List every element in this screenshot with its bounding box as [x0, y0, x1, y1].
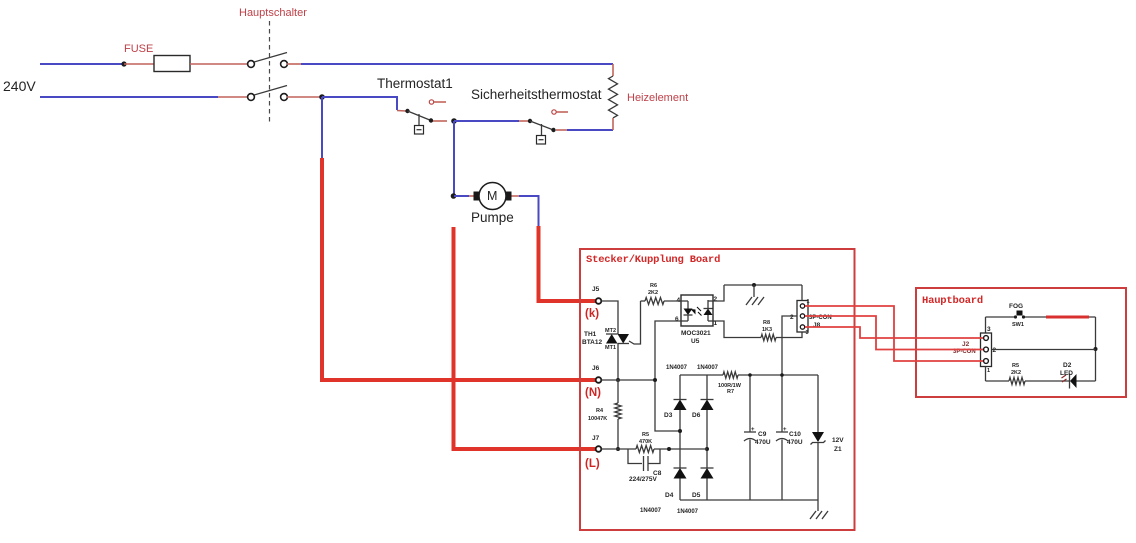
label J8 — [813, 322, 821, 329]
pin 6 label — [675, 316, 679, 323]
label R4 — [596, 408, 604, 414]
wire D3 to D4 — [679, 410, 681, 468]
label 100R/1W — [718, 383, 742, 389]
wire FOG left — [986, 316, 1015, 318]
ground bottom stub — [817, 500, 819, 511]
wire red J8 pin1 to J2 pin1 — [805, 306, 983, 361]
svg-text:D3: D3 — [664, 412, 673, 419]
wire thick red L vertical — [452, 227, 456, 449]
label J2 — [962, 341, 970, 348]
label D3 — [664, 412, 673, 419]
wire line2 red to switch — [218, 96, 248, 98]
svg-text:470U: 470U — [787, 439, 803, 446]
wire line1 red fuse to switch — [190, 63, 248, 65]
svg-text:Sicherheitsthermostat: Sicherheitsthermostat — [471, 87, 602, 102]
svg-text:D6: D6 — [692, 412, 701, 419]
wire D4 to bottom rail — [679, 479, 681, 501]
wire blue pump feed — [453, 121, 455, 196]
resistor R4 — [615, 403, 621, 419]
svg-text:J2: J2 — [962, 341, 970, 348]
label D4 — [665, 492, 674, 499]
wire 240V line2 blue segment — [40, 96, 218, 98]
pin 3 label J8 — [806, 330, 809, 336]
wire FOG right — [1025, 316, 1096, 318]
label MOC3021 — [681, 330, 711, 337]
switch Hauptschalter pole1 — [248, 53, 288, 68]
pin 1 label — [714, 320, 718, 327]
svg-text:C9: C9 — [758, 431, 767, 438]
svg-text:(N): (N) — [585, 387, 601, 399]
wire red stub thermostat in — [397, 110, 406, 113]
connector J8 pin3 — [800, 325, 804, 329]
LED arrows D2 — [1062, 375, 1067, 382]
diode D6 leg top — [706, 375, 708, 400]
thermostat Sicherheitsthermostat contact — [528, 119, 556, 132]
wire R5 to bridge — [654, 448, 707, 450]
wire rail R7 to Z1 — [738, 374, 818, 376]
wire top ground rail — [724, 284, 802, 286]
wire R8 to J8 — [776, 332, 802, 338]
connector J2 box — [981, 333, 992, 367]
node junction N branch — [319, 94, 325, 100]
wire bottom rail — [680, 499, 818, 501]
wire thick red N horizontal — [320, 378, 597, 382]
label Thermostat1 — [377, 76, 453, 91]
label 2K2 hauptboard — [1011, 370, 1021, 376]
label FUSE — [124, 43, 153, 55]
label 470U C10 — [787, 439, 803, 446]
label SW1 — [1012, 322, 1024, 328]
svg-text:Hauptboard: Hauptboard — [922, 295, 983, 307]
connector J8 pin2 — [800, 314, 804, 318]
label J6 — [592, 365, 600, 372]
label J5 — [592, 286, 600, 293]
svg-text:1N4007: 1N4007 — [666, 365, 688, 371]
node junction C9 rail — [748, 373, 752, 377]
resistor R6 — [641, 298, 682, 305]
label 3P-CON J2 — [953, 349, 976, 355]
svg-text:Stecker/Kupplung Board: Stecker/Kupplung Board — [586, 254, 720, 266]
connector J5 terminal — [596, 298, 602, 304]
label 12V — [832, 437, 844, 444]
svg-text:2: 2 — [993, 347, 997, 354]
svg-text:Hauptschalter: Hauptschalter — [239, 7, 307, 19]
wire triac MT1 to J6 row — [617, 344, 619, 381]
svg-text:R6: R6 — [650, 283, 657, 289]
wire bridge top rail — [680, 374, 723, 376]
svg-text:3: 3 — [987, 326, 991, 333]
wire U5 pin6 to J6 net — [655, 321, 681, 431]
svg-text:MT2: MT2 — [605, 328, 616, 334]
wire J2 riser — [985, 317, 987, 333]
svg-text:D2: D2 — [1063, 362, 1072, 369]
thermostat Thermostat1 sensor mark — [429, 100, 446, 104]
svg-text:MOC3021: MOC3021 — [681, 330, 711, 337]
resistor R8 — [761, 334, 776, 340]
wire C10 leg bottom — [781, 440, 783, 501]
wire J7 horizontal lead — [602, 448, 637, 450]
switch SW1 pushbutton — [1014, 311, 1025, 319]
label (k) — [585, 308, 599, 320]
wire red pump right pin — [512, 195, 520, 197]
wire red highlight FOG — [1046, 316, 1089, 319]
wire blue to heater bottom — [567, 129, 613, 131]
triac TH1 — [606, 334, 629, 344]
svg-text:M: M — [487, 189, 497, 203]
resistor Heizelement — [609, 76, 618, 118]
svg-text:J6: J6 — [592, 365, 600, 372]
wire blue pump right lead — [519, 196, 539, 227]
wire D2 to rail — [1077, 380, 1096, 382]
label R5 — [642, 432, 649, 438]
label (L) — [585, 458, 600, 470]
connector J7 terminal — [596, 446, 602, 452]
svg-text:1: 1 — [807, 299, 810, 305]
wire R5b to D2 — [1025, 380, 1069, 382]
svg-text:240V: 240V — [3, 78, 36, 94]
pin 2 label — [714, 296, 718, 303]
label 224/275V — [629, 476, 657, 483]
svg-text:4: 4 — [677, 297, 681, 304]
svg-text:1K3: 1K3 — [762, 327, 772, 333]
wire U5 pin4 internal — [681, 300, 688, 302]
label Sicherheitsthermostat — [471, 87, 602, 102]
resistor R5 — [636, 446, 654, 453]
node junction C8 rejoin — [667, 447, 671, 451]
svg-text:+: + — [783, 427, 787, 433]
svg-text:(k): (k) — [585, 308, 599, 320]
resistor R7 — [723, 372, 738, 378]
node junction J6 net mid — [653, 378, 657, 382]
svg-text:6: 6 — [675, 316, 679, 323]
wire line1 red after switch — [287, 63, 301, 65]
node junction pump branch — [451, 118, 457, 124]
node junction ground tap — [752, 283, 756, 287]
label TH1 — [584, 331, 597, 338]
ground symbol bottom — [810, 511, 828, 519]
svg-text:LED: LED — [1060, 370, 1073, 377]
wire C9 leg top — [749, 375, 751, 432]
ground top stub — [753, 285, 755, 297]
svg-text:10047K: 10047K — [588, 416, 607, 422]
wire Z1 leg top — [817, 375, 819, 432]
motor M1 pump terminals — [474, 192, 512, 201]
wire C8 branch right — [648, 449, 660, 464]
wire red Thermostat1 to node — [433, 120, 447, 122]
node junction C10 rail — [780, 373, 784, 377]
wire line1 blue to heater corner — [301, 63, 613, 65]
fuse FUSE symbol — [154, 56, 190, 72]
node junction pump left — [451, 193, 457, 199]
node junction AC1 — [678, 429, 682, 433]
connector J2 pin2 — [984, 347, 989, 352]
label R5 hauptboard — [1012, 363, 1019, 369]
node junction AC2 — [705, 447, 709, 451]
label D5 — [692, 492, 701, 499]
switch Hauptschalter pole2 — [248, 86, 288, 101]
svg-text:Thermostat1: Thermostat1 — [377, 76, 453, 91]
svg-text:224/275V: 224/275V — [629, 476, 657, 483]
connector J8 box — [797, 301, 808, 333]
svg-text:J5: J5 — [592, 286, 600, 293]
label LED — [1060, 370, 1073, 377]
diode D5 — [701, 468, 714, 479]
wire red pump left pin — [469, 195, 474, 197]
label Hauptboard title — [922, 295, 983, 307]
wire thick red N vertical — [320, 158, 324, 380]
label Hauptschalter — [239, 7, 307, 19]
connector J2 pin3 — [984, 336, 989, 341]
dashed actuator line Hauptschalter — [269, 21, 271, 125]
diode D2 LED — [1070, 374, 1077, 389]
svg-text:BTA12: BTA12 — [582, 339, 602, 346]
diode Z1 zener — [811, 432, 826, 445]
svg-text:+: + — [751, 427, 755, 433]
svg-text:Pumpe: Pumpe — [471, 210, 514, 225]
label D6 — [692, 412, 701, 419]
wire C9 leg bottom — [749, 440, 751, 501]
label FOG — [1009, 303, 1023, 310]
label 1N4007 bot2 — [677, 509, 699, 515]
thermostat Sicherheitsthermostat actuator box — [537, 124, 546, 144]
pin 1 label J2 — [987, 368, 990, 374]
capacitor C10 — [776, 427, 788, 441]
svg-text:J8: J8 — [813, 322, 821, 329]
capacitor C9 — [744, 427, 756, 441]
label D2 — [1063, 362, 1072, 369]
label Pumpe — [471, 210, 514, 225]
wire thick red L horizontal — [452, 447, 598, 451]
wire R4 bottom lead — [617, 419, 619, 449]
wire bottom lead R5b — [986, 380, 1010, 382]
svg-text:Z1: Z1 — [834, 446, 842, 453]
node junction fuse input — [121, 61, 126, 66]
pin 2 label J2 — [993, 347, 997, 354]
wire blue N drop — [321, 97, 323, 160]
svg-text:R4: R4 — [596, 408, 604, 414]
svg-text:R5: R5 — [642, 432, 649, 438]
svg-text:TH1: TH1 — [584, 331, 597, 338]
wire line2 red after switch — [287, 96, 322, 98]
wire 240V line1 blue segment — [40, 63, 124, 65]
connector J8 pin1 — [800, 304, 804, 308]
label 2K2 — [648, 290, 658, 296]
wire right rail Hauptboard — [1095, 317, 1097, 381]
diode D4 — [674, 468, 687, 479]
svg-text:D4: D4 — [665, 492, 674, 499]
svg-text:1: 1 — [987, 368, 990, 374]
pin 2 label J8 — [790, 314, 794, 321]
wire red J8 pin3 to J2 pin3 — [805, 327, 983, 338]
node junction right rail — [1094, 347, 1098, 351]
label C8 — [653, 470, 662, 477]
svg-text:SW1: SW1 — [1012, 322, 1024, 328]
svg-text:3: 3 — [806, 330, 809, 336]
label 240V — [3, 78, 36, 94]
wire J5 to triac — [602, 301, 619, 334]
board box Hauptboard — [916, 288, 1126, 397]
wire thick red k vertical — [537, 226, 541, 301]
diode D3 — [674, 400, 687, 411]
pin 1 label J8 — [807, 299, 810, 305]
op-amp U5 MOC3021 box — [681, 295, 713, 326]
wire line2 blue to thermostat — [322, 97, 397, 110]
svg-text:R7: R7 — [727, 389, 734, 395]
connector J6 terminal — [596, 377, 602, 383]
svg-text:2: 2 — [714, 296, 718, 303]
wire red heater top stub — [612, 64, 614, 76]
wire blue pump left lead — [454, 195, 469, 197]
svg-text:12V: 12V — [832, 437, 844, 444]
wire U5 pin1 to R8 — [713, 321, 761, 338]
label (N) — [585, 387, 601, 399]
wire red to Sicherheitsthermostat — [519, 120, 528, 122]
svg-text:R5: R5 — [1012, 363, 1019, 369]
wire red heater bottom stub — [612, 118, 614, 130]
label BTA12 — [582, 339, 602, 346]
wire J8 top to rail — [801, 285, 803, 301]
svg-text:(L): (L) — [585, 458, 600, 470]
label 1N4007 top2 — [697, 365, 719, 371]
label MT1 — [605, 345, 616, 351]
wire U5 pin2 internal — [708, 300, 713, 302]
wire red after Sicherheitsthermostat — [556, 129, 567, 131]
svg-text:470K: 470K — [639, 439, 652, 445]
wire Z1 leg bottom — [817, 443, 819, 501]
svg-text:1N4007: 1N4007 — [697, 365, 719, 371]
label Stecker/Kupplung Board title — [586, 254, 720, 266]
svg-text:MT1: MT1 — [605, 345, 616, 351]
label 470K — [639, 439, 652, 445]
wire R4 top lead — [617, 380, 619, 403]
motor M1 pump body — [479, 183, 506, 210]
thermostat Thermostat1 actuator box — [415, 114, 424, 134]
label C9 — [758, 431, 767, 438]
label M motor — [487, 189, 497, 203]
label 10047K — [588, 416, 607, 422]
wire U5 pin2 up to rail — [713, 285, 724, 301]
label 1N4007 bot1 — [640, 508, 662, 514]
svg-text:1N4007: 1N4007 — [677, 509, 699, 515]
wire U5 pin6 internal — [681, 320, 688, 322]
wire J2 pin2 to rail — [992, 349, 1096, 351]
wire triac gate riser — [629, 301, 641, 344]
wire line1 red segment to fuse — [124, 63, 154, 65]
diode U5 internal LED — [684, 301, 696, 321]
wire blue between thermostats — [454, 120, 519, 122]
board box Stecker/Kupplung — [580, 249, 855, 530]
label Z1 — [834, 446, 842, 453]
label R6 — [650, 283, 657, 289]
svg-text:2K2: 2K2 — [1011, 370, 1021, 376]
svg-text:D5: D5 — [692, 492, 701, 499]
wire J6 horizontal — [602, 379, 656, 381]
label 3P-CON J8 — [809, 315, 832, 321]
svg-text:2: 2 — [790, 314, 794, 321]
wire D5 to bottom rail — [706, 479, 708, 501]
svg-text:1N4007: 1N4007 — [640, 508, 662, 514]
svg-text:C10: C10 — [789, 431, 801, 438]
diode D3 leg top — [679, 375, 681, 400]
wire red J8 pin2 to J2 pin2 — [805, 316, 983, 350]
wire C8 branch — [628, 449, 642, 464]
label C10 — [789, 431, 801, 438]
thermostat Thermostat1 contact — [405, 109, 433, 123]
pin 3 label J2 — [987, 326, 991, 333]
wire J2 bottom riser — [985, 367, 987, 382]
label Heizelement — [627, 92, 688, 104]
label U5 — [691, 338, 700, 345]
U5 light arrows — [697, 307, 702, 316]
svg-text:FOG: FOG — [1009, 303, 1023, 310]
label J7 — [592, 435, 600, 442]
resistor R5 hauptboard — [1009, 378, 1025, 385]
label 470U C9 — [755, 439, 771, 446]
label MT2 — [605, 328, 616, 334]
svg-text:U5: U5 — [691, 338, 700, 345]
ground symbol top — [746, 297, 764, 305]
transistor U5 internal triac — [704, 300, 713, 321]
svg-text:2K2: 2K2 — [648, 290, 658, 296]
capacitor C8 — [644, 456, 649, 471]
pin 4 label — [677, 297, 681, 304]
label 1K3 — [762, 327, 772, 333]
thermostat Sicherheitsthermostat sensor mark — [552, 110, 568, 114]
svg-text:Heizelement: Heizelement — [627, 92, 688, 104]
svg-text:470U: 470U — [755, 439, 771, 446]
label R8 — [763, 320, 770, 326]
diode D6 — [701, 400, 714, 411]
node junction J7 R4 — [616, 447, 620, 451]
node junction J6 triac — [616, 378, 620, 382]
connector J2 pin1 — [984, 359, 989, 364]
wire D6 to D5 — [706, 410, 708, 468]
wire U5 pin1 internal — [708, 320, 713, 322]
svg-text:FUSE: FUSE — [124, 43, 153, 55]
wire thick red k horizontal — [537, 299, 597, 303]
label R7 — [727, 389, 734, 395]
svg-text:R8: R8 — [763, 320, 770, 326]
wire J8 pin2 down — [782, 316, 797, 432]
label 1N4007 top1 — [666, 365, 688, 371]
svg-text:J7: J7 — [592, 435, 600, 442]
